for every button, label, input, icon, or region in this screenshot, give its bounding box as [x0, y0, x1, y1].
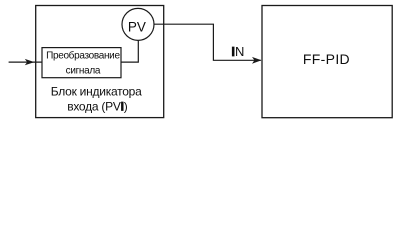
- svg-text:Преобразование: Преобразование: [46, 50, 120, 62]
- wire: PV circle to FF-PID block: [155, 24, 261, 60]
- svg-text:IN: IN: [231, 44, 244, 59]
- wire: input arrow into left block: [9, 59, 42, 65]
- label: Блок индикатора входа (PVI): [51, 85, 142, 114]
- label: Преобразование сигнала: [46, 50, 120, 77]
- svg-text:FF-PID: FF-PID: [303, 51, 350, 67]
- arrowhead: IN into FF-PID: [252, 57, 262, 64]
- wire: inner box to PV circle: [121, 41, 138, 62]
- svg-text:Блок индикатора: Блок индикатора: [51, 85, 142, 99]
- svg-text:входа (PVI): входа (PVI): [67, 100, 128, 114]
- block: FF-PID (right box): [262, 6, 392, 118]
- node: PV circle: [122, 8, 154, 40]
- svg-text:сигнала: сигнала: [66, 66, 101, 77]
- block: signal conversion (inner box): [42, 48, 121, 78]
- block: PV input indicator (left outer box): [36, 6, 164, 118]
- svg-text:PV: PV: [128, 20, 146, 35]
